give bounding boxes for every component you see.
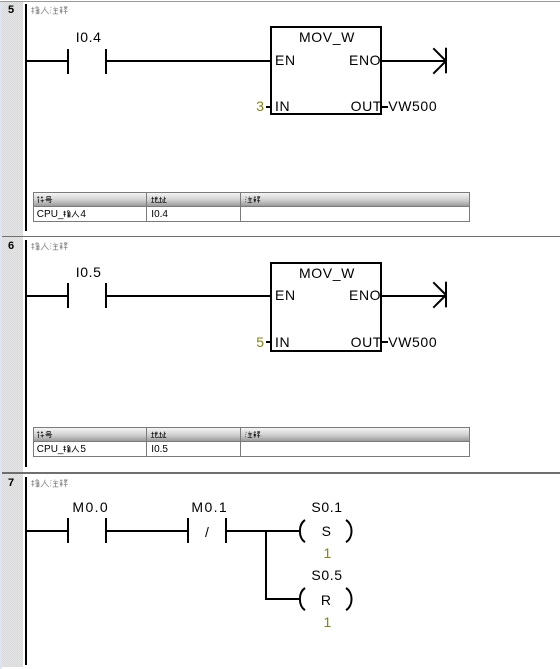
pin EN — [275, 288, 296, 302]
wire ENO to arrow — [382, 60, 445, 62]
wire rail to contact I0.4 — [27, 60, 67, 62]
pin EN — [275, 53, 296, 67]
value 1 (S bit count) — [324, 546, 332, 560]
window top border line — [0, 1, 560, 2]
block MOV_W (network 6) box — [270, 262, 382, 352]
wire M0.0 to M0.1 — [107, 530, 187, 532]
row symbol name CPU_xxx5 — [37, 445, 64, 455]
network number 5 — [8, 5, 14, 16]
wire M0.1 to coil branch — [227, 530, 300, 532]
IN pin stub wire — [266, 106, 271, 108]
open rung end arrow — [432, 47, 449, 75]
header 地址 (address) — [151, 196, 167, 204]
contact I0.5 (normally open) — [67, 283, 69, 308]
contact operand label M0.0 — [72, 500, 109, 514]
wire contact to MOV_W EN — [107, 295, 270, 297]
network 7 title comment 输入注释 — [31, 479, 68, 488]
row address I0.4 — [151, 210, 168, 220]
wire rail to contact I0.5 — [27, 295, 67, 297]
symbol table frame — [33, 427, 470, 457]
network separator line — [2, 472, 560, 474]
pin IN — [275, 335, 290, 349]
header 注释 (comment) — [245, 431, 261, 439]
column divider 2 — [240, 193, 241, 221]
net label VW500 (OUT operand) — [388, 335, 437, 349]
network 5 title comment 输入注释 — [31, 6, 68, 15]
coil S0.5 (Reset) arcs — [294, 584, 356, 614]
network number 7 — [8, 478, 14, 489]
network number 6 — [8, 241, 14, 252]
symbol table frame — [33, 192, 470, 222]
coil S0.1 (Set) arcs — [294, 516, 356, 546]
coil letter S — [322, 524, 332, 538]
OUT pin stub wire — [382, 106, 388, 108]
contact operand label I0.4 — [76, 30, 102, 44]
row address I0.5 — [151, 445, 168, 455]
contact operand label M0.1 — [191, 500, 228, 514]
pin ENO — [349, 53, 381, 67]
column divider 2 — [240, 428, 241, 456]
left power rail (network 5) — [25, 4, 27, 231]
open rung end arrow — [432, 281, 449, 309]
row CJK 输入 — [63, 210, 79, 218]
column divider 1 — [146, 428, 147, 456]
coil operand label S0.1 — [311, 500, 342, 514]
header 地址 (address) — [151, 431, 167, 439]
header 符号 (symbol) — [37, 196, 53, 204]
contact operand label I0.5 — [76, 265, 102, 279]
value 5 (IN operand) — [256, 335, 264, 349]
branch junction vertical wire — [265, 530, 267, 600]
pin ENO — [349, 288, 381, 302]
value 3 (IN operand) — [256, 99, 264, 113]
wire rail to contact M0.0 — [27, 530, 67, 532]
header 符号 (symbol) — [37, 431, 53, 439]
row symbol name CPU_xxx4 — [37, 210, 64, 220]
network separator line — [2, 236, 560, 238]
coil operand label S0.5 — [311, 568, 342, 582]
row CJK 输入 — [63, 445, 79, 453]
NC slash of contact M0.1 — [205, 525, 210, 539]
net label VW500 (OUT operand) — [388, 99, 437, 113]
header 注释 (comment) — [245, 196, 261, 204]
left power rail (network 7) — [25, 477, 27, 665]
contact I0.4 (normally open) — [67, 49, 69, 74]
wire contact to MOV_W EN — [107, 60, 270, 62]
network number gutter — [2, 2, 23, 667]
block title MOV_W — [299, 30, 355, 44]
contact M0.0 (normally open) — [67, 518, 69, 543]
wire ENO to arrow — [382, 295, 445, 297]
coil letter R — [321, 593, 332, 607]
pin OUT — [351, 335, 382, 349]
branch wire to R coil — [265, 598, 300, 600]
OUT pin stub wire — [382, 341, 388, 343]
contact M0.1 (normally closed) — [187, 518, 189, 543]
pin IN — [275, 99, 290, 113]
block MOV_W (network 5) box — [270, 26, 382, 115]
column divider 1 — [146, 193, 147, 221]
network 6 title comment 输入注释 — [31, 242, 68, 251]
symbol table header band — [34, 428, 469, 442]
left power rail (network 6) — [25, 240, 27, 467]
value 1 (R bit count) — [324, 615, 332, 629]
symbol table header band — [34, 193, 469, 207]
block title MOV_W — [299, 266, 355, 280]
pin OUT — [351, 99, 382, 113]
IN pin stub wire — [266, 341, 271, 343]
window left edge strip — [0, 2, 2, 669]
